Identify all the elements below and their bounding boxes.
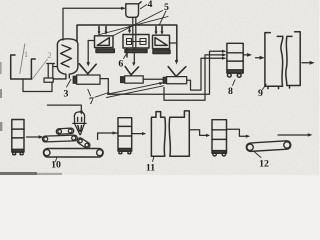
belt conveyor 12 [246, 141, 291, 152]
svg-text:3: 3 [64, 89, 69, 100]
svg-text:5: 5 [164, 2, 169, 13]
label 7 [88, 82, 164, 107]
label 9 [258, 84, 266, 99]
wire gas line to tank [63, 7, 126, 40]
svg-text:12: 12 [259, 159, 269, 170]
wire tank outlet pipe through box2 [132, 17, 136, 66]
label 8 [228, 80, 235, 97]
svg-text:4: 4 [148, 0, 153, 10]
svg-text:2: 2 [47, 50, 51, 60]
elevator 2 [44, 64, 57, 83]
wire line B to box 8 [164, 53, 226, 100]
wire press B to press C [143, 78, 163, 80]
wire line C to box 8 [187, 57, 227, 90]
belt conveyor 10 [43, 149, 103, 158]
wire line A to box 8 [108, 50, 226, 95]
cabinet 10b [118, 118, 132, 154]
svg-text:6: 6 [118, 59, 123, 70]
wire feed arrows box1 [98, 27, 108, 35]
wire feed arrows box3 [155, 27, 164, 35]
label 5 [98, 2, 169, 36]
svg-text:1: 1 [24, 49, 28, 59]
wire press A discharge [100, 79, 108, 95]
cabinet 12a [212, 120, 227, 156]
label 10 [51, 157, 61, 171]
svg-text:7: 7 [89, 96, 94, 107]
svg-text:11: 11 [146, 163, 155, 174]
wire cabinet2 to silo 11 [132, 132, 146, 135]
label 2 [32, 50, 52, 80]
label 6 [118, 52, 128, 70]
silo 11 [151, 111, 189, 156]
wire feed arrow box2 [128, 27, 131, 34]
wire manifold [77, 25, 178, 65]
separator box 5b [153, 35, 171, 53]
roller R3 [76, 137, 91, 149]
silo 9 [265, 32, 300, 89]
wire hopper feed line [47, 105, 83, 115]
wire cabinet to feeder arrow [27, 135, 44, 138]
svg-text:8: 8 [228, 86, 233, 97]
wire conveyor 10 to cabinet 2 [98, 131, 118, 139]
wire silo 9 outlet arrow [302, 61, 315, 65]
separator box 5a [95, 36, 115, 53]
wire U pipe bin to elevator [23, 79, 52, 92]
press unit C [163, 67, 187, 84]
label 12 [254, 152, 269, 170]
junction dot [107, 92, 110, 95]
label 3 [64, 80, 71, 100]
hopper cone 10 [73, 112, 86, 135]
wire box8 to silo 9 [243, 53, 264, 60]
label 4 [140, 0, 152, 10]
label 11 [146, 157, 155, 174]
mill box 6 [123, 35, 149, 58]
roller R1 [56, 128, 74, 135]
wire silo 11 to cabinet 3 [189, 130, 210, 137]
bin 1 [11, 55, 36, 79]
press unit B [121, 67, 144, 84]
cabinet 10a [12, 120, 24, 155]
roller R2 [42, 135, 77, 142]
heat exchanger 3 [53, 39, 78, 79]
scan edge smudges [0, 62, 62, 175]
wire conveyor 12 outlet arrow [278, 133, 312, 136]
label 1 [20, 44, 28, 74]
tank 4 [126, 2, 141, 18]
box 8 [227, 43, 243, 77]
press unit A [73, 41, 100, 85]
wire cabinet3 to conveyor 12 [227, 129, 251, 138]
